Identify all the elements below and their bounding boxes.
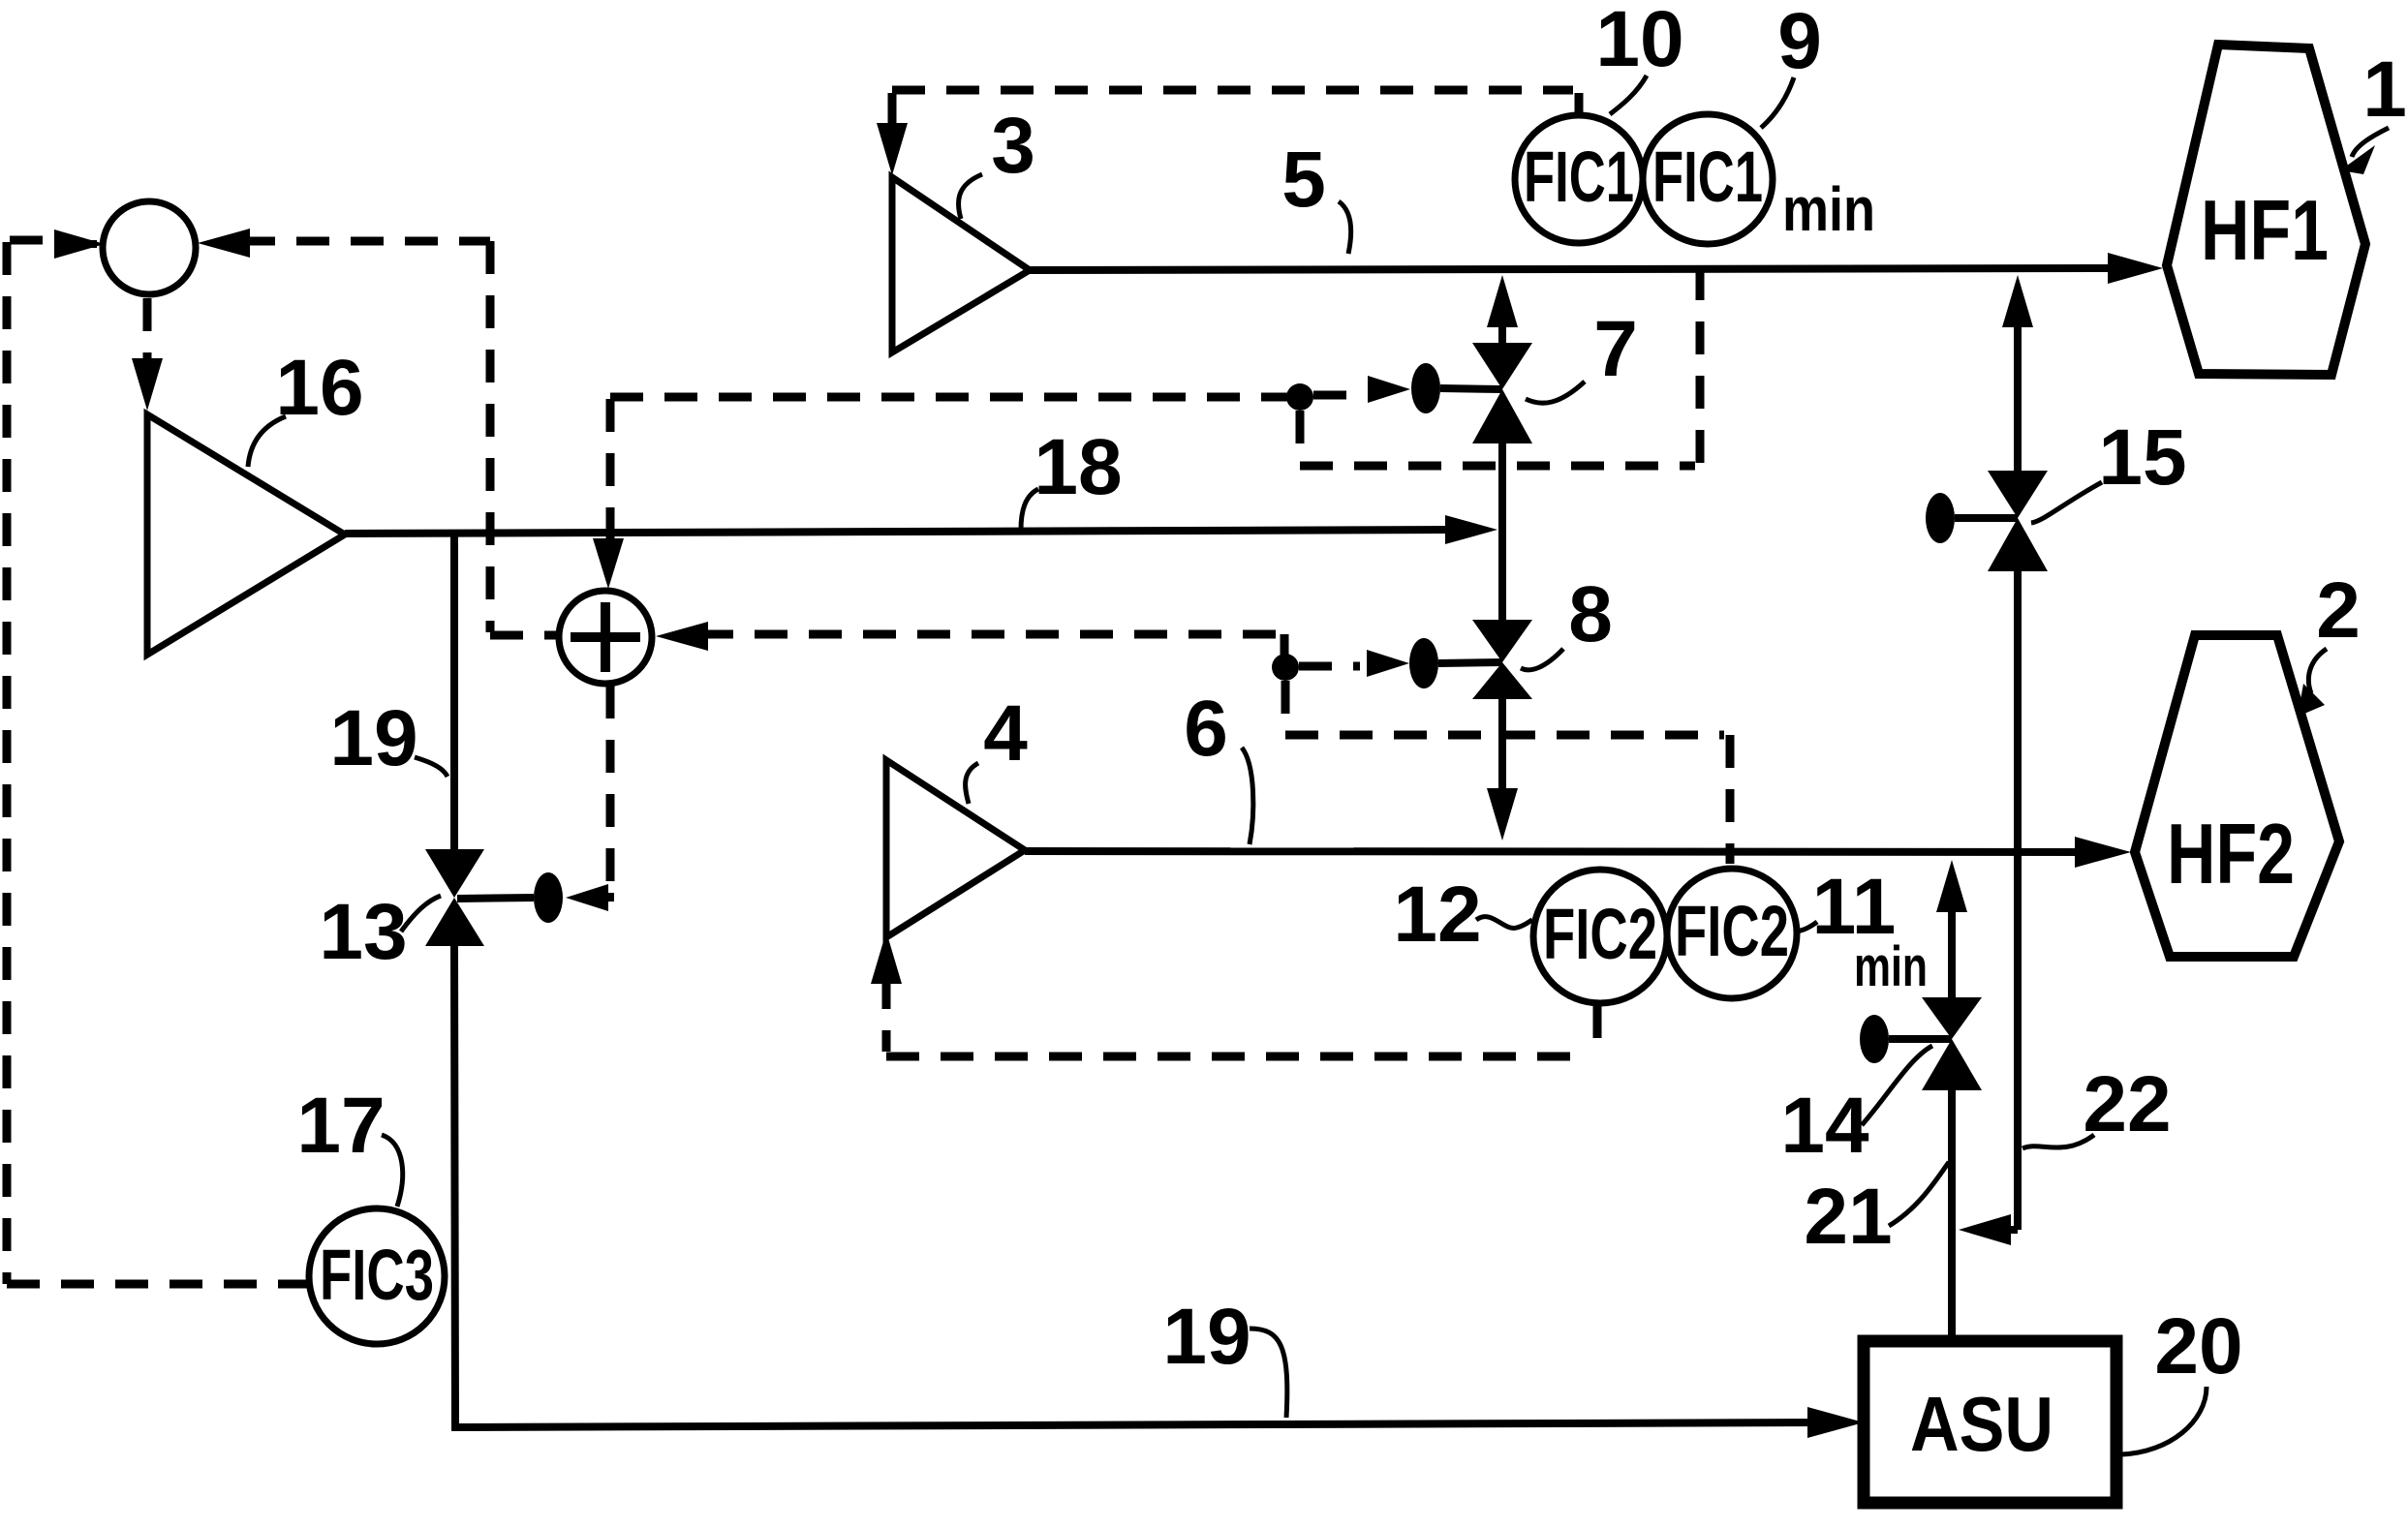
leader 16 <box>248 416 286 467</box>
wire: dashed FIC1 loop down to FIC1 <box>1575 93 1584 112</box>
wire: dashed stub far-left corner to arrow <box>10 236 54 245</box>
node: dot on valve 8 signal line <box>1272 654 1299 681</box>
wire: dashed summer bottom to valve 13 actuator <box>606 686 615 887</box>
wire: vertical 21 arrow up into line 6 <box>1936 860 1967 997</box>
wire: far-left dashed vertical (FIC3 feedback riser) <box>3 242 12 1284</box>
compressor 4 (triangle) <box>886 760 1025 937</box>
leader 14 <box>1862 1046 1932 1125</box>
svg-text:17: 17 <box>296 1082 385 1170</box>
ASU box <box>1864 1341 2116 1503</box>
leader 7 <box>1526 382 1585 403</box>
wire: dashed horizontal y=410 takeoff line <box>610 393 1294 402</box>
leader 9 <box>1761 77 1794 128</box>
wire: valve column arrow up into line 5 <box>1487 275 1518 343</box>
actuator handwheel valve 15 <box>1926 493 1955 543</box>
svg-text:22: 22 <box>2083 1060 2171 1148</box>
node: dot on valve 7 signal line <box>1286 383 1313 411</box>
wire: vertical 21 below valve 14 to ASU <box>1948 1090 1956 1341</box>
svg-text:13: 13 <box>319 888 407 976</box>
FIC1min controller circle <box>1643 114 1773 244</box>
wire: line 18 from compressor 16 to valve column <box>345 515 1497 544</box>
leader 3 <box>959 174 982 219</box>
leader 4 <box>966 763 978 804</box>
wire: dashed horizontal FIC3 to far-left riser <box>7 1280 308 1289</box>
svg-text:min: min <box>1782 174 1875 244</box>
compressor 3 (triangle) <box>892 177 1030 352</box>
FIC2 controller circle <box>1533 870 1667 1003</box>
leader 19 lower <box>1250 1329 1287 1418</box>
wire: vertical 22 below valve 15 to jog <box>2014 571 2022 1230</box>
svg-text:16: 16 <box>275 344 363 432</box>
leader 15 <box>2031 482 2102 523</box>
actuator diaphragm valve 8 <box>1409 638 1438 688</box>
FIC1 controller circle <box>1515 115 1643 243</box>
valve 7 <box>1472 343 1532 389</box>
wire: dashed branch dot down / right to FIC1min <box>1296 411 1305 459</box>
HF1 furnace hexagon <box>2167 45 2365 375</box>
summer circle with plus <box>559 591 652 684</box>
svg-text:4: 4 <box>983 689 1028 778</box>
wire: line 6 from compressor 4 to HF2 <box>1025 837 2131 868</box>
svg-text:11: 11 <box>1812 863 1897 951</box>
svg-text:FIC2: FIC2 <box>1675 891 1789 971</box>
HF2 furnace hexagon <box>2135 635 2339 957</box>
valve 14 <box>1922 997 1982 1039</box>
wire: dashed FIC2 loop up to FIC2 <box>1593 1005 1602 1056</box>
compressor 16 (triangle) <box>147 414 345 655</box>
leader 12 (tilde) <box>1476 917 1532 929</box>
leader 10 <box>1610 76 1647 114</box>
wire: dashed into summer right side (from FIC2min takeoff) <box>656 622 1279 651</box>
valve 13 <box>425 849 484 898</box>
svg-text:20: 20 <box>2154 1302 2242 1390</box>
svg-text:19: 19 <box>329 694 417 782</box>
svg-text:9: 9 <box>1777 0 1822 85</box>
svg-text:ASU: ASU <box>1910 1381 2053 1467</box>
leader 1 with arrow <box>2352 128 2389 157</box>
wire: dashed into summer left side <box>490 631 559 640</box>
svg-text:10: 10 <box>1595 0 1683 83</box>
actuator diaphragm valve 13 <box>534 872 563 923</box>
svg-text:FIC2: FIC2 <box>1543 894 1657 974</box>
wire: line 19 below valve 13 to corner and to ASU <box>454 946 1864 1438</box>
svg-text:14: 14 <box>1780 1082 1869 1170</box>
valve 8 <box>1472 620 1532 662</box>
FIC2min controller circle <box>1667 869 1797 998</box>
svg-text:FIC1: FIC1 <box>1524 137 1634 217</box>
FIC3 controller circle <box>309 1208 445 1344</box>
leader 17 <box>382 1135 403 1207</box>
svg-text:6: 6 <box>1184 685 1228 773</box>
wire: dashed FIC1 loop top horizontal <box>892 86 1573 95</box>
wire: line 5 from compressor 3 to HF1 <box>1030 253 2163 284</box>
wire: valve column down to line 6 with arrow <box>1487 699 1518 840</box>
svg-text:1: 1 <box>2362 46 2407 134</box>
wire: dashed vertical x=506 (summer to comparator loop) <box>486 241 495 632</box>
svg-text:19: 19 <box>1162 1293 1250 1381</box>
wire: valve column between valves 7 and 8 <box>1498 443 1506 620</box>
svg-text:3: 3 <box>991 102 1035 190</box>
svg-text:8: 8 <box>1568 570 1613 658</box>
svg-text:21: 21 <box>1804 1173 1892 1261</box>
leader 8 <box>1521 649 1563 670</box>
svg-text:12: 12 <box>1393 871 1481 959</box>
leader 5 <box>1339 201 1351 254</box>
svg-text:18: 18 <box>1034 423 1122 511</box>
svg-text:FIC3: FIC3 <box>320 1235 434 1315</box>
leader 18 <box>1021 489 1038 530</box>
svg-text:FIC1: FIC1 <box>1652 137 1763 217</box>
wire: dot to valve 7 actuator (arrow + dash) <box>1313 376 1410 403</box>
svg-text:15: 15 <box>2098 413 2186 502</box>
wire: dashed down into summer top (from FIC1min takeoff) <box>593 399 624 589</box>
svg-text:HF2: HF2 <box>2167 806 2295 902</box>
leader 19 upper <box>415 757 448 777</box>
wire: solid arrow into comparator from left <box>54 229 105 259</box>
valve 15 <box>1988 471 2048 518</box>
wire: dashed FIC2 loop bottom horizontal <box>886 1053 1591 1061</box>
wire: dot to valve 8 actuator (arrow + dash) <box>1299 650 1409 677</box>
svg-text:5: 5 <box>1281 136 1326 224</box>
leader 11 <box>1794 922 1817 932</box>
comparator circle (setpoint node) top-left <box>103 201 196 294</box>
leader 20 <box>2121 1387 2207 1454</box>
actuator diaphragm valve 7 <box>1411 363 1440 413</box>
svg-text:HF1: HF1 <box>2201 182 2329 278</box>
wire: vertical 19 from line 18 down through valve 13 to bottom corner <box>450 534 458 849</box>
wire: dashed branch dot2 down / right to FIC2min <box>1281 681 1290 728</box>
leader 22 <box>2022 1135 2094 1148</box>
wire: vertical 22 arrow up into line 5 <box>2002 275 2033 471</box>
leader 2 with arrow <box>2308 649 2327 693</box>
leader 21 <box>1889 1162 1949 1226</box>
wire: jog from line 22 into line 21 with arrow <box>1959 1214 2018 1245</box>
wire: dashed comparator output down to machine 16 <box>132 298 163 411</box>
actuator handwheel valve 14 <box>1860 1015 1889 1063</box>
wire: dashed FIC1 loop arrow into compressor 3 <box>877 93 908 175</box>
wire: dashed FIC2 loop arrow into compressor 4 <box>871 932 902 1052</box>
svg-text:2: 2 <box>2316 566 2361 655</box>
leader 13 <box>401 896 441 932</box>
leader 6 <box>1242 748 1253 844</box>
svg-text:7: 7 <box>1593 305 1638 393</box>
wire: dashed comparator right input arrow <box>198 229 490 258</box>
